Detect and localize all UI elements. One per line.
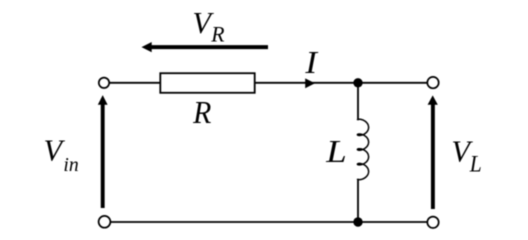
terminal top-right [427, 77, 438, 88]
junction node top [353, 78, 362, 87]
svg-text:V: V [44, 133, 66, 167]
arrow VR (points left above resistor) [142, 42, 269, 52]
wire inductor branch bottom [357, 179, 359, 222]
terminal top-left [99, 78, 109, 88]
svg-text:L: L [325, 134, 347, 169]
label Vin [44, 133, 79, 176]
label VL [451, 134, 481, 177]
inductor L coil [357, 119, 368, 179]
junction node bottom [353, 217, 362, 226]
wire resistor to top-right terminal [255, 82, 428, 84]
svg-text:L: L [469, 151, 482, 177]
wire top-left segment [110, 82, 161, 84]
svg-text:in: in [63, 154, 78, 176]
wire bottom segment [110, 221, 427, 223]
arrow Vin (points up, left side) [98, 95, 108, 208]
svg-text:R: R [192, 95, 211, 130]
arrow I (current, points right on top wire) [305, 78, 315, 88]
resistor R [160, 73, 254, 93]
wire inductor branch top [357, 83, 359, 120]
terminal bottom-left [99, 216, 111, 228]
svg-text:R: R [210, 22, 224, 46]
terminal bottom-right [427, 217, 438, 228]
arrow VL (points up, right side) [428, 95, 438, 209]
svg-text:I: I [304, 45, 318, 80]
label VR [192, 6, 224, 47]
